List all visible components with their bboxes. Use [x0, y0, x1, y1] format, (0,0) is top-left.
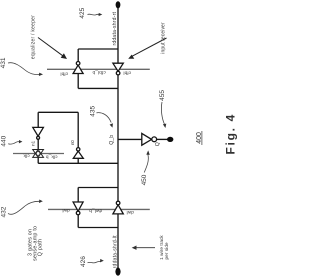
- svg-text:equalizer / keeper: equalizer / keeper: [31, 15, 37, 59]
- svg-text:clk_b: clk_b: [46, 155, 58, 160]
- svg-text:input receiver: input receiver: [161, 22, 167, 54]
- svg-text:Fig. 4: Fig. 4: [224, 113, 238, 155]
- svg-text:n1: n1: [31, 140, 36, 145]
- svg-text:Q: Q: [155, 142, 161, 146]
- svg-text:dwl: dwl: [126, 210, 133, 215]
- svg-text:431: 431: [0, 57, 7, 68]
- svg-text:clk: clk: [23, 154, 30, 159]
- svg-text:rddata-shrd-lt: rddata-shrd-lt: [112, 235, 118, 268]
- svg-text:per side: per side: [164, 242, 169, 259]
- svg-text:426: 426: [80, 256, 87, 267]
- svg-text:425: 425: [79, 7, 86, 18]
- svg-text:Q path: Q path: [38, 239, 44, 256]
- svg-text:455: 455: [159, 90, 166, 101]
- svg-text:rddata-shrd-rt: rddata-shrd-rt: [112, 11, 118, 45]
- svg-text:435: 435: [89, 105, 96, 116]
- svg-text:dwl: dwl: [62, 208, 69, 213]
- svg-text:432: 432: [1, 206, 8, 217]
- svg-text:n0: n0: [70, 140, 75, 145]
- svg-text:450: 450: [141, 174, 148, 185]
- svg-text:Q_b: Q_b: [109, 135, 115, 145]
- svg-text:440: 440: [1, 135, 8, 146]
- svg-text:dwl_b: dwl_b: [89, 208, 102, 213]
- svg-text:cfbl: cfbl: [123, 70, 131, 75]
- svg-text:cfbl: cfbl: [60, 72, 68, 77]
- svg-text:cfbl_b: cfbl_b: [92, 70, 106, 75]
